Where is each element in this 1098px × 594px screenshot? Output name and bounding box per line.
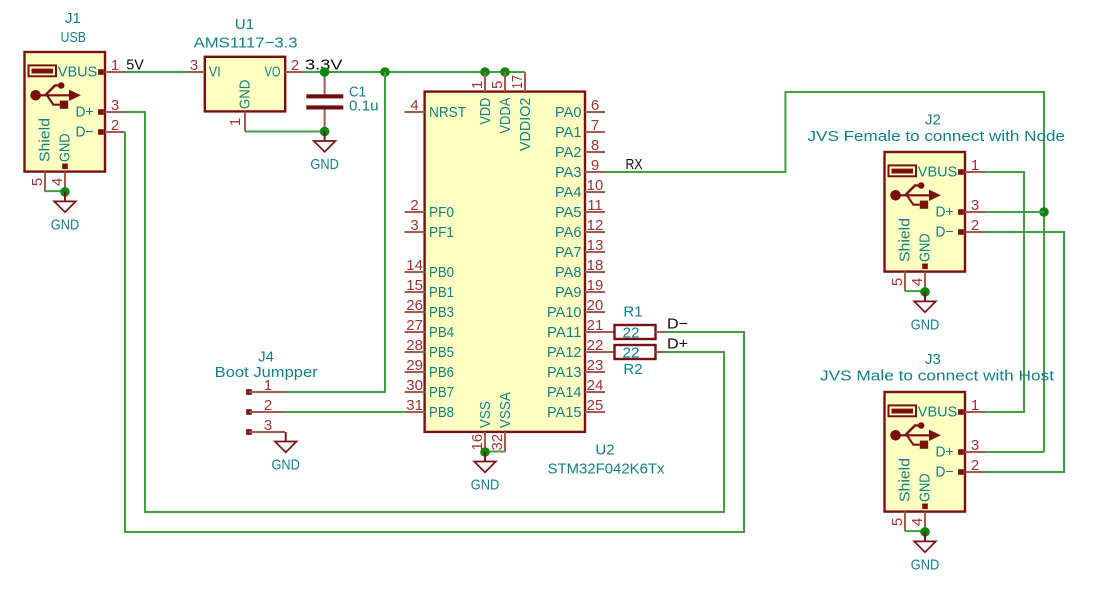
junction at J3 pin 4 [920, 527, 930, 537]
svg-text:D+: D+ [667, 336, 688, 353]
U2 pin 23 PA13 [547, 357, 605, 381]
U2 pin 9 PA3 [555, 157, 605, 181]
svg-text:0.1u: 0.1u [349, 98, 379, 115]
svg-text:VBUS: VBUS [918, 404, 958, 421]
svg-text:PB0: PB0 [429, 264, 454, 281]
U2 pin 27 PB4 [405, 317, 454, 341]
J3 pin 2 D&#8722; [936, 457, 986, 481]
ground below J4 pin 3 [271, 432, 300, 474]
svg-text:GND: GND [911, 557, 940, 574]
resistor R2 [605, 344, 665, 378]
J1 pin 1 VBUS [58, 57, 125, 81]
svg-text:PB7: PB7 [429, 384, 454, 401]
svg-text:J1: J1 [65, 10, 81, 27]
svg-text:GND: GND [57, 133, 74, 162]
U2 pin 22 PA12 [547, 337, 605, 361]
svg-text:PA5: PA5 [555, 204, 582, 221]
U2 pin 5 VDDA (top) [489, 72, 514, 134]
svg-text:GND: GND [917, 233, 934, 262]
svg-text:24: 24 [587, 377, 604, 394]
U2 pin 8 PA2 [555, 137, 605, 161]
svg-text:3: 3 [971, 197, 979, 214]
svg-text:GND: GND [51, 217, 80, 234]
svg-text:PA4: PA4 [555, 184, 582, 201]
junction 3.3V at VDD [480, 67, 490, 77]
U2 pin 2 PF0 [405, 197, 454, 221]
svg-text:D+: D+ [76, 104, 94, 121]
ground below U2 [471, 452, 500, 494]
svg-text:4: 4 [410, 97, 418, 114]
svg-text:20: 20 [587, 297, 604, 314]
svg-text:2: 2 [971, 457, 979, 474]
svg-text:14: 14 [406, 257, 423, 274]
svg-text:PB5: PB5 [429, 344, 454, 361]
svg-text:PA3: PA3 [555, 164, 582, 181]
svg-text:D−: D− [76, 124, 94, 141]
svg-text:21: 21 [587, 317, 604, 334]
svg-text:17: 17 [509, 75, 526, 89]
wire U1 GND to C1 bottom [245, 131, 325, 133]
svg-text:26: 26 [406, 297, 423, 314]
wire D&#8722;: J1 pin2 to R1 [125, 132, 744, 532]
svg-text:D+: D+ [936, 204, 954, 221]
svg-text:VI: VI [209, 64, 221, 81]
svg-text:D−: D− [936, 464, 954, 481]
svg-text:2: 2 [264, 397, 272, 414]
J3 pin 5 Shield [889, 458, 914, 532]
svg-text:RX: RX [626, 156, 643, 173]
svg-text:JVS Male to connect with Host: JVS Male to connect with Host [820, 368, 1055, 385]
svg-text:15: 15 [406, 277, 423, 294]
junction at C1 bottom [320, 127, 330, 137]
svg-text:5: 5 [29, 178, 46, 186]
J3 pin 1 VBUS [918, 397, 985, 421]
svg-text:4: 4 [909, 518, 926, 526]
J3 USB trident icon [890, 422, 941, 449]
wire RX: U2 PA3 to J2/J3 D+ [605, 92, 1044, 452]
J4 pin 1 [246, 377, 285, 395]
svg-text:31: 31 [406, 397, 423, 414]
svg-text:PA0: PA0 [555, 104, 582, 121]
svg-text:PA14: PA14 [547, 384, 582, 401]
J1 pin 2 D&#8722; [76, 117, 126, 141]
U2 pin 24 PA14 [547, 377, 605, 401]
svg-text:1: 1 [111, 57, 119, 74]
svg-text:Shield: Shield [37, 118, 54, 162]
connector J1 body [25, 52, 106, 172]
connector J3 body [885, 392, 966, 512]
J3 receptacle icon [889, 405, 917, 416]
svg-text:R2: R2 [623, 361, 642, 378]
svg-text:11: 11 [587, 197, 603, 214]
svg-text:30: 30 [406, 377, 423, 394]
svg-text:GND: GND [310, 156, 339, 173]
svg-text:29: 29 [406, 357, 423, 374]
U1 pin 1 GND [227, 79, 254, 131]
svg-text:PF0: PF0 [429, 204, 454, 221]
svg-text:2: 2 [111, 117, 119, 134]
wire VSSA to VSS [485, 451, 505, 453]
J2 pin 4 GND [909, 233, 934, 291]
svg-text:VSSA: VSSA [497, 392, 514, 428]
svg-text:2: 2 [410, 197, 418, 214]
connector J2 body [885, 152, 966, 272]
svg-text:2: 2 [291, 57, 299, 74]
svg-text:4: 4 [909, 278, 926, 286]
svg-text:VBUS: VBUS [58, 64, 98, 81]
svg-text:GND: GND [271, 457, 300, 474]
svg-text:3: 3 [264, 417, 272, 434]
U1 pin 2 VO [265, 57, 306, 81]
wire J4 pin2 to U2 PB8 [285, 411, 405, 413]
J3 pin 3 D+ [936, 437, 986, 461]
ground below J1 [51, 192, 80, 234]
svg-text:PA11: PA11 [547, 324, 582, 341]
svg-text:8: 8 [591, 137, 599, 154]
U2 pin 6 PA0 [555, 97, 605, 121]
junction at J1 pin 4 [60, 187, 70, 197]
svg-text:VO: VO [265, 64, 281, 81]
svg-text:JVS Female to connect with Nod: JVS Female to connect with Node [808, 128, 1066, 145]
J1 pin 3 D+ [76, 97, 126, 121]
svg-text:GND: GND [917, 473, 934, 502]
wire J3 pin3 to RX column [985, 451, 1044, 453]
J2 pin 3 D+ [936, 197, 986, 221]
svg-text:4: 4 [49, 178, 66, 186]
J2 pin 1 VBUS [918, 157, 985, 181]
regulator U1 body [205, 57, 285, 112]
svg-text:VDDIO2: VDDIO2 [517, 98, 534, 152]
U2 pin 30 PB7 [405, 377, 454, 401]
svg-text:AMS1117−3.3: AMS1117−3.3 [194, 35, 298, 52]
J2 pin 5 Shield [889, 218, 914, 292]
J2 receptacle icon [889, 165, 917, 176]
wire 5V: J1 pin1 to U1 VI [125, 71, 185, 73]
svg-text:5: 5 [889, 278, 906, 286]
U2 pin 1 VDD (top) [469, 72, 494, 125]
svg-text:GND: GND [471, 477, 500, 494]
svg-text:U2: U2 [595, 442, 614, 459]
svg-text:D−: D− [936, 224, 954, 241]
J1 pin 5 Shield [29, 118, 54, 192]
svg-text:GND: GND [911, 317, 940, 334]
svg-text:PA9: PA9 [555, 284, 582, 301]
U1 pin 3 VI [185, 57, 221, 81]
svg-text:13: 13 [587, 237, 604, 254]
junction at VSS [480, 447, 490, 457]
U2 pin 12 PA6 [555, 217, 605, 241]
svg-text:1: 1 [227, 118, 244, 126]
wire J4 pin1 to 3.3V rail [285, 72, 385, 392]
svg-text:VDDA: VDDA [497, 98, 514, 134]
svg-text:18: 18 [587, 257, 604, 274]
wire J3 pin5 to pin4 [905, 530, 925, 532]
svg-text:10: 10 [587, 177, 604, 194]
svg-text:PA6: PA6 [555, 224, 582, 241]
svg-text:22: 22 [623, 344, 640, 361]
svg-text:VSS: VSS [477, 401, 494, 428]
svg-text:1: 1 [469, 81, 486, 89]
svg-text:PB1: PB1 [429, 284, 454, 301]
svg-text:3: 3 [410, 217, 418, 234]
svg-text:PA8: PA8 [555, 264, 582, 281]
U2 pin 14 PB0 [405, 257, 454, 281]
svg-text:23: 23 [587, 357, 604, 374]
svg-text:PA1: PA1 [555, 124, 582, 141]
svg-text:3: 3 [971, 437, 979, 454]
J1 USB trident icon [30, 82, 81, 109]
svg-text:PB3: PB3 [429, 304, 454, 321]
svg-text:PB8: PB8 [429, 404, 454, 421]
wire J2 pin3 to RX column [985, 211, 1044, 213]
U2 pin 4 NRST [405, 97, 466, 121]
U2 pin 21 PA11 [547, 317, 605, 341]
svg-text:12: 12 [587, 217, 604, 234]
svg-text:5V: 5V [126, 56, 144, 73]
J3 pin 4 GND [909, 473, 934, 531]
U2 pin 26 PB3 [405, 297, 454, 321]
svg-text:R1: R1 [623, 304, 642, 321]
svg-text:J2: J2 [925, 112, 941, 129]
svg-text:7: 7 [591, 117, 599, 134]
svg-text:VBUS: VBUS [918, 164, 958, 181]
svg-text:NRST: NRST [429, 104, 466, 121]
J4 pin 3 [246, 417, 285, 435]
U2 pin 18 PA8 [555, 257, 605, 281]
microcontroller U2 body [425, 92, 585, 432]
J4 pin 2 [246, 397, 285, 415]
svg-text:19: 19 [587, 277, 604, 294]
U2 pin 17 VDDIO2 (top) [509, 72, 534, 151]
J1 pin 4 GND [49, 133, 74, 191]
svg-text:1: 1 [971, 397, 979, 414]
wire D+: J1 pin3 to R2 [125, 112, 724, 512]
svg-text:STM32F042K6Tx: STM32F042K6Tx [548, 461, 665, 478]
svg-text:VDD: VDD [477, 97, 494, 124]
svg-text:J4: J4 [258, 349, 274, 366]
svg-text:D+: D+ [936, 444, 954, 461]
ground below C1 [310, 132, 339, 174]
svg-text:5: 5 [489, 81, 506, 89]
U2 pin 11 PA5 [555, 197, 605, 221]
svg-text:3: 3 [190, 57, 198, 74]
svg-text:PA13: PA13 [547, 364, 582, 381]
U2 pin 16 VSS (bottom) [469, 401, 494, 452]
svg-text:6: 6 [591, 97, 599, 114]
svg-text:9: 9 [591, 157, 599, 174]
svg-text:PA12: PA12 [547, 344, 582, 361]
wire J2 pin5 to pin4 [905, 290, 925, 292]
wire J1 pin5 to pin4 [45, 190, 65, 192]
svg-text:PB6: PB6 [429, 364, 454, 381]
J1 receptacle icon [29, 65, 57, 76]
U2 pin 7 PA1 [555, 117, 605, 141]
J2 pin 2 D&#8722; [936, 217, 986, 241]
U2 pin 15 PB1 [405, 277, 454, 301]
U2 pin 10 PA4 [555, 177, 605, 201]
svg-text:22: 22 [587, 337, 604, 354]
svg-text:USB: USB [61, 29, 87, 46]
svg-text:PA15: PA15 [547, 404, 582, 421]
svg-text:22: 22 [623, 324, 640, 341]
svg-text:2: 2 [971, 217, 979, 234]
svg-text:1: 1 [264, 377, 272, 394]
svg-text:3: 3 [111, 97, 119, 114]
J2 USB trident icon [890, 182, 941, 209]
svg-text:J3: J3 [925, 351, 941, 368]
ground below J2 [911, 292, 940, 334]
svg-text:U1: U1 [235, 16, 254, 33]
U2 pin 32 VSSA (bottom) [489, 392, 514, 452]
U2 pin 28 PB5 [405, 337, 454, 361]
wire VBUS: J2 pin1 to J3 pin1 [985, 172, 1024, 412]
wire D&#8722;: J2 pin2 to J3 pin2 [985, 232, 1064, 472]
svg-text:D−: D− [667, 316, 688, 333]
U2 pin 29 PB6 [405, 357, 454, 381]
junction RX at J2 D+ [1039, 207, 1049, 217]
svg-text:PB4: PB4 [429, 324, 454, 341]
U2 pin 13 PA7 [555, 237, 605, 261]
svg-text:PA2: PA2 [555, 144, 582, 161]
wire 3.3V rail: U1 VO to U2 VDDIO2 [305, 71, 525, 73]
junction 3.3V at C1 [320, 67, 330, 77]
svg-text:PA10: PA10 [547, 304, 582, 321]
junction 3.3V at VDDA [500, 67, 510, 77]
ground below J3 [911, 532, 940, 574]
svg-text:Shield: Shield [897, 218, 914, 262]
svg-text:5: 5 [889, 518, 906, 526]
svg-text:32: 32 [489, 434, 506, 451]
U2 pin 19 PA9 [555, 277, 605, 301]
svg-text:PF1: PF1 [429, 224, 454, 241]
svg-text:Shield: Shield [897, 458, 914, 502]
U2 pin 31 PB8 [405, 397, 454, 421]
svg-text:27: 27 [406, 317, 423, 334]
capacitor C1 [306, 72, 343, 132]
svg-text:28: 28 [406, 337, 423, 354]
junction 3.3V at J4 branch [380, 67, 390, 77]
svg-text:PA7: PA7 [555, 244, 582, 261]
U2 pin 25 PA15 [547, 397, 605, 421]
resistor R1 [605, 304, 665, 342]
U2 pin 20 PA10 [547, 297, 605, 321]
svg-text:GND: GND [237, 79, 254, 109]
junction at J2 pin 4 [920, 287, 930, 297]
svg-text:1: 1 [971, 157, 979, 174]
U2 pin 3 PF1 [405, 217, 454, 241]
svg-text:25: 25 [587, 397, 604, 414]
